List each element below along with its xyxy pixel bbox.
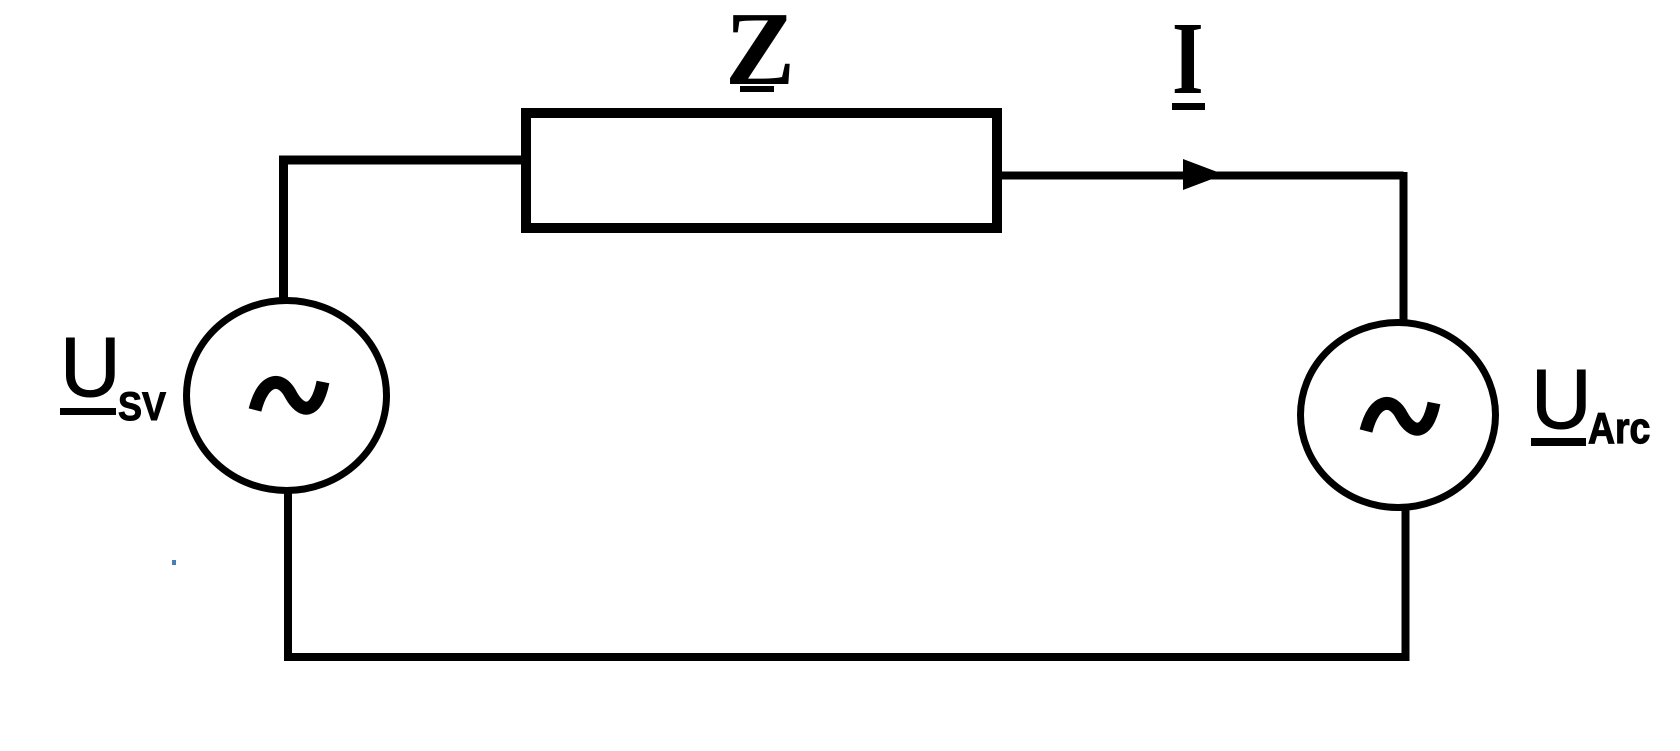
label U_Arc: [1531, 352, 1650, 453]
voltage source U_Arc (AC source circle): [1301, 323, 1496, 508]
wire bottom horizontal rail: [284, 653, 1409, 661]
label U_SV: [60, 320, 167, 429]
svg-text:I: I: [1172, 2, 1204, 117]
wire from U_SV bottom terminal down to bottom rail: [284, 489, 292, 657]
arrowhead of current I: [1183, 159, 1224, 190]
wire from U_SV top terminal up to top rail (left vertical segment): [279, 160, 288, 300]
stray blue dot artifact: [172, 560, 176, 565]
voltage source U_SV (AC source circle): [187, 301, 387, 491]
svg-text:U: U: [1531, 352, 1592, 446]
sine symbol inside U_SV source: [255, 382, 323, 410]
wire right vertical segment down to U_Arc top terminal: [1400, 172, 1408, 322]
svg-text:SV: SV: [118, 385, 167, 429]
svg-text:U: U: [60, 320, 121, 414]
label I (underlined): [1172, 2, 1205, 117]
impedance Z (rectangle body): [526, 113, 997, 228]
wire from impedance Z right side to node corner (horizontal): [997, 172, 1404, 180]
svg-text:Arc: Arc: [1588, 403, 1650, 453]
sine symbol inside U_Arc source: [1366, 403, 1434, 431]
wire top-left horizontal segment to impedance Z: [279, 156, 526, 165]
wire from bottom rail up to U_Arc bottom terminal: [1402, 508, 1410, 661]
label Z (underlined): [725, 0, 795, 107]
